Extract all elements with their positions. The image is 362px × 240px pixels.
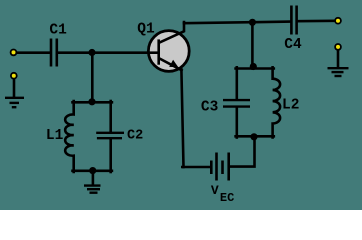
- svg-text:C2: C2: [127, 129, 143, 144]
- svg-text:C4: C4: [284, 37, 302, 53]
- svg-text:C3: C3: [201, 99, 218, 115]
- svg-text:EC: EC: [220, 191, 234, 205]
- svg-text:L1: L1: [46, 128, 64, 144]
- svg-text:C1: C1: [49, 23, 67, 39]
- svg-text:L2: L2: [282, 97, 299, 113]
- svg-text:Q1: Q1: [137, 21, 155, 37]
- svg-text:V: V: [211, 183, 219, 198]
